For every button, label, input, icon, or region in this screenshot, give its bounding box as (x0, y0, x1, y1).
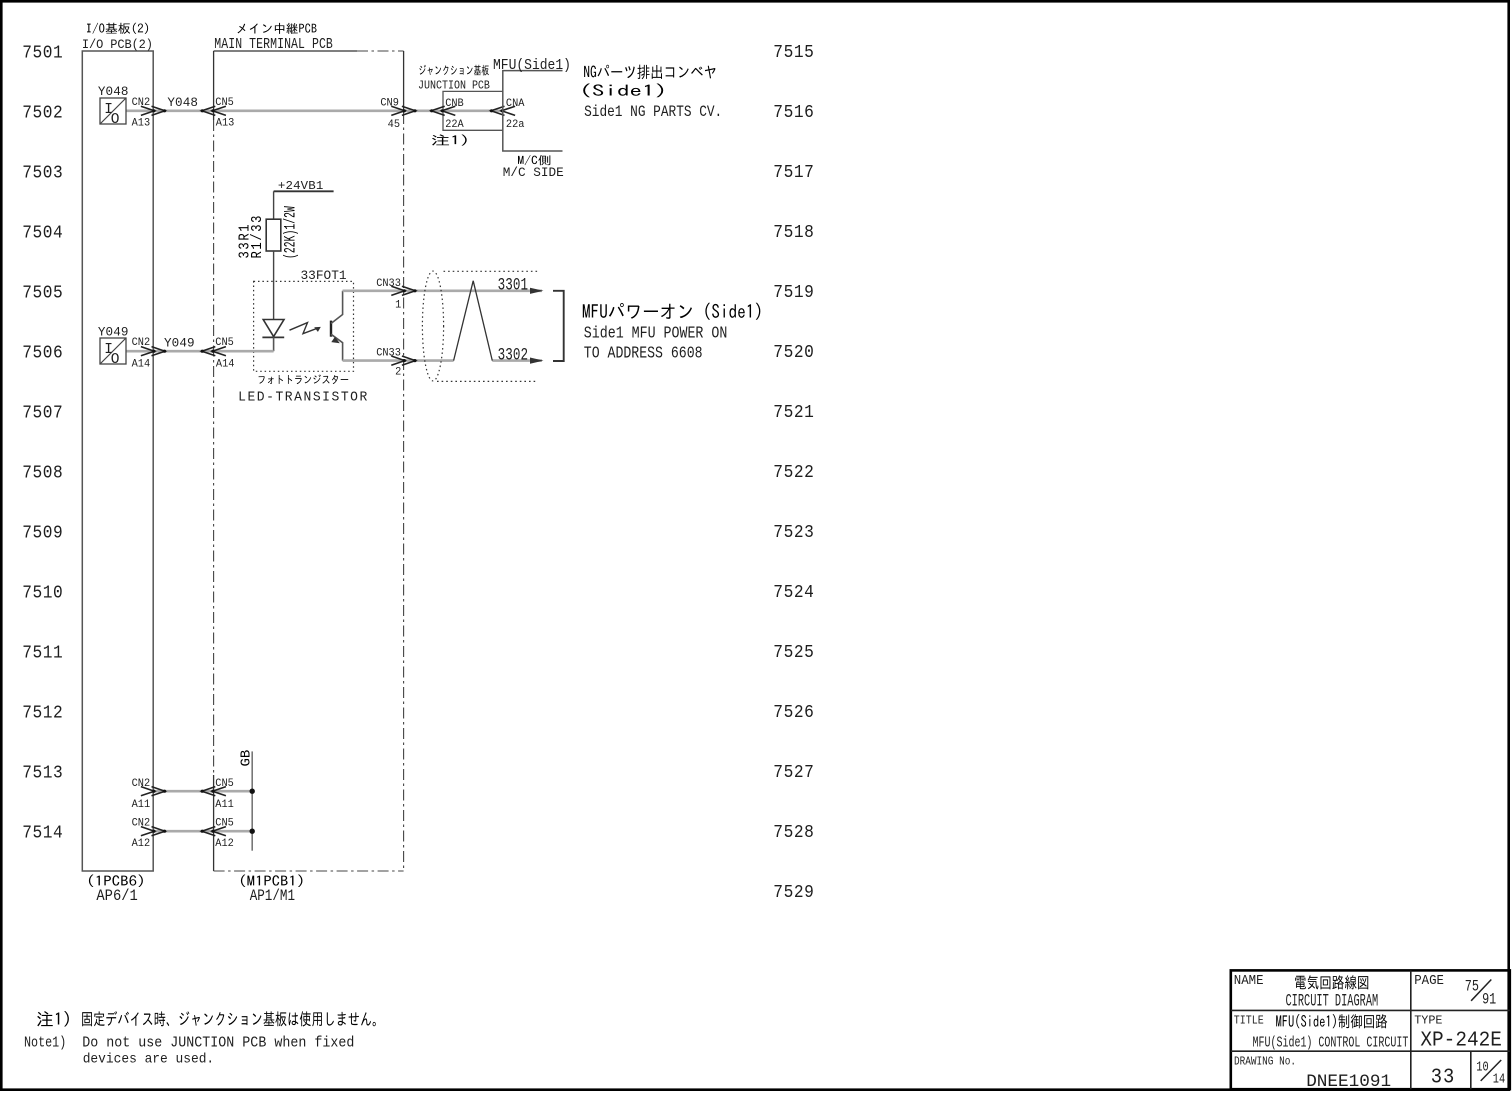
svg-text:7517: 7517 (773, 163, 814, 183)
svg-text:MAIN TERMINAL PCB: MAIN TERMINAL PCB (214, 37, 333, 54)
svg-text:7514: 7514 (22, 824, 63, 844)
svg-text:A13: A13 (216, 117, 235, 130)
svg-text:7529: 7529 (773, 883, 814, 903)
svg-text:Side1 MFU POWER ON: Side1 MFU POWER ON (584, 323, 728, 343)
svg-text:22a: 22a (506, 119, 525, 132)
board name (1PCB6) AP6/1 (89, 875, 143, 887)
title block (1231, 970, 1510, 1089)
svg-text:7526: 7526 (773, 703, 814, 723)
connector CN33 pin 1 (391, 286, 405, 295)
svg-text:Y048: Y048 (98, 85, 129, 99)
svg-text:CN5: CN5 (215, 817, 234, 830)
wire net Y049 from I/O PCB to LED (126, 350, 274, 353)
svg-text:7502: 7502 (22, 104, 63, 124)
svg-text:7528: 7528 (773, 823, 814, 843)
svg-text:CN5: CN5 (215, 337, 234, 350)
phototransistor caption (259, 375, 349, 385)
svg-text:CIRCUIT DIAGRAM: CIRCUIT DIAGRAM (1286, 992, 1379, 1012)
wire number 3302 (498, 345, 529, 366)
svg-text:1: 1 (395, 299, 401, 312)
svg-text:devices are used.: devices are used. (83, 1052, 214, 1068)
svg-text:Y049: Y049 (164, 337, 195, 351)
svg-text:7525: 7525 (773, 643, 814, 663)
svg-text:DNEE1091: DNEE1091 (1306, 1072, 1391, 1092)
svg-text:A13: A13 (132, 117, 151, 130)
cable bundle dotted lines (444, 270, 539, 272)
svg-text:CNB: CNB (445, 97, 464, 110)
svg-text:7513: 7513 (22, 764, 63, 784)
svg-text:33FOT1: 33FOT1 (301, 268, 347, 283)
wire CN2 A11 to GB (153, 790, 252, 793)
board name (M1PCB1) AP1/M1 (241, 875, 303, 887)
svg-text:33: 33 (1431, 1066, 1455, 1090)
svg-text:CN5: CN5 (215, 778, 234, 791)
svg-text:7519: 7519 (773, 283, 814, 303)
wire resistor to LED (273, 251, 275, 320)
svg-text:7512: 7512 (22, 704, 63, 724)
wire from +24VB1 to resistor (273, 191, 275, 219)
svg-text:TO ADDRESS 6608: TO ADDRESS 6608 (584, 345, 703, 363)
right line-number column 7515-7529 (773, 43, 814, 63)
svg-text:R1/33: R1/33 (250, 214, 266, 259)
svg-text:CN2: CN2 (132, 778, 151, 791)
svg-text:7515: 7515 (773, 43, 814, 63)
destination text MFU power on (583, 303, 761, 320)
svg-text:Y049: Y049 (98, 325, 129, 339)
svg-text:DRAWING No.: DRAWING No. (1234, 1056, 1296, 1069)
destination bracket (553, 291, 564, 361)
GB ground bus line (251, 751, 253, 850)
svg-text:(22K)1/2W: (22K)1/2W (281, 206, 299, 259)
svg-text:MFU(Side1) CONTROL CIRCUIT: MFU(Side1) CONTROL CIRCUIT (1253, 1035, 1409, 1051)
svg-text:CN2: CN2 (132, 817, 151, 830)
svg-text:CN33: CN33 (376, 347, 401, 360)
svg-text:A12: A12 (215, 838, 234, 851)
svg-text:Do not use JUNCTION PCB when f: Do not use JUNCTION PCB when fixed (82, 1035, 354, 1052)
svg-text:10: 10 (1476, 1059, 1488, 1075)
svg-text:O: O (111, 112, 120, 128)
JUNCTION PCB outline (443, 91, 503, 130)
svg-text:7505: 7505 (22, 284, 63, 304)
svg-text:91: 91 (1482, 992, 1496, 1009)
svg-text:A12: A12 (132, 838, 151, 851)
svg-text:7524: 7524 (773, 583, 814, 603)
svg-text:7521: 7521 (773, 403, 814, 423)
wire number 3301 (498, 274, 529, 295)
svg-text:CN2: CN2 (132, 337, 151, 350)
svg-text:Note1): Note1) (24, 1034, 66, 1051)
svg-text:A14: A14 (132, 358, 151, 371)
page fraction 75/91 (1465, 979, 1479, 996)
MFU(Side1) M/C-side bracket (503, 71, 563, 151)
wire net Y048 from I/O PCB to junction PCB (126, 110, 503, 113)
svg-text:MFU(Side1): MFU(Side1) (493, 57, 571, 74)
svg-text:A11: A11 (215, 798, 234, 811)
connector CN33 pin 2 (391, 356, 405, 365)
svg-text:Side1 NG PARTS CV.: Side1 NG PARTS CV. (584, 104, 722, 121)
phototransistor (330, 321, 332, 337)
svg-text:CN2: CN2 (132, 97, 151, 110)
svg-text:+24VB1: +24VB1 (278, 179, 324, 193)
connector CNB pin 22A (442, 106, 456, 115)
twisted pair crossover (454, 281, 493, 361)
svg-text:3301: 3301 (498, 274, 529, 295)
svg-text:AP6/1: AP6/1 (96, 889, 138, 906)
svg-text:TITLE: TITLE (1234, 1015, 1264, 1028)
svg-text:7511: 7511 (22, 644, 63, 664)
svg-text:7504: 7504 (22, 224, 63, 244)
svg-text:7522: 7522 (773, 463, 814, 483)
svg-text:7516: 7516 (773, 103, 814, 123)
I/O output symbol Y048 (100, 98, 126, 124)
svg-text:7506: 7506 (22, 344, 63, 364)
svg-text:Y048: Y048 (167, 96, 198, 110)
connector CN9 pin 45 (391, 106, 405, 115)
svg-text:7527: 7527 (773, 763, 814, 783)
svg-text:7501: 7501 (22, 44, 63, 64)
svg-text:7510: 7510 (22, 584, 63, 604)
resistor 33R1 R1/33 (22K)1/2W (266, 219, 281, 251)
connector CN2 pin A14 (141, 347, 155, 356)
svg-text:CN33: CN33 (376, 278, 401, 291)
svg-text:7508: 7508 (22, 464, 63, 484)
svg-text:3302: 3302 (498, 345, 529, 366)
svg-text:7518: 7518 (773, 223, 814, 243)
svg-text:CNA: CNA (506, 97, 525, 110)
LED (anode down) (263, 320, 284, 337)
svg-text:A11: A11 (132, 798, 151, 811)
I/O PCB(2) board outline (82, 51, 153, 871)
svg-text:7523: 7523 (773, 523, 814, 543)
note ref 注1） (432, 134, 467, 145)
svg-text:O: O (111, 352, 120, 368)
connector CN5 pin A13 (212, 106, 226, 115)
svg-text:A14: A14 (216, 358, 235, 371)
light coupling zigzag arrow (290, 323, 318, 334)
svg-text:22A: 22A (445, 119, 464, 132)
svg-text:7507: 7507 (22, 404, 63, 424)
wire CN2 A12 to GB (153, 830, 252, 833)
svg-text:M/C SIDE: M/C SIDE (503, 165, 564, 180)
svg-text:2: 2 (395, 366, 401, 379)
power rail +24VB1 (274, 190, 334, 192)
svg-text:JUNCTION PCB: JUNCTION PCB (418, 80, 490, 93)
svg-text:14: 14 (1493, 1071, 1505, 1087)
svg-text:AP1/M1: AP1/M1 (250, 888, 295, 906)
note 1 text (37, 1011, 69, 1026)
optocoupler 33FOT1 dotted box (254, 281, 354, 371)
svg-text:LED-TRANSISTOR: LED-TRANSISTOR (238, 390, 369, 405)
cable shield ellipse (422, 271, 443, 381)
connector CN2 pin A13 (141, 106, 155, 115)
svg-text:I/O PCB(2): I/O PCB(2) (82, 38, 153, 53)
svg-text:CN5: CN5 (215, 97, 234, 110)
MAIN TERMINAL PCB board outline (chain line) (213, 120, 215, 775)
svg-text:7503: 7503 (22, 164, 63, 184)
connector CN5 pin A14 (212, 347, 226, 356)
svg-text:TYPE: TYPE (1414, 1014, 1442, 1028)
svg-text:7509: 7509 (22, 524, 63, 544)
svg-text:45: 45 (388, 119, 400, 132)
connector CNA pin 22a (502, 106, 515, 115)
svg-text:NAME: NAME (1234, 972, 1264, 988)
wire CN33-2 to 3302 (343, 359, 542, 362)
svg-text:PAGE: PAGE (1414, 972, 1444, 988)
wire CN33-1 to 3301 (343, 289, 542, 292)
svg-text:XP-242E: XP-242E (1420, 1029, 1501, 1053)
svg-text:CN9: CN9 (380, 97, 399, 110)
left line-number column 7501-7514 (22, 44, 63, 64)
sheet fraction 10/14 (1476, 1059, 1488, 1075)
svg-text:7520: 7520 (773, 343, 814, 363)
I/O output symbol Y049 (100, 338, 126, 364)
destination text NG parts conveyor (584, 65, 715, 80)
svg-text:GB: GB (239, 750, 255, 767)
